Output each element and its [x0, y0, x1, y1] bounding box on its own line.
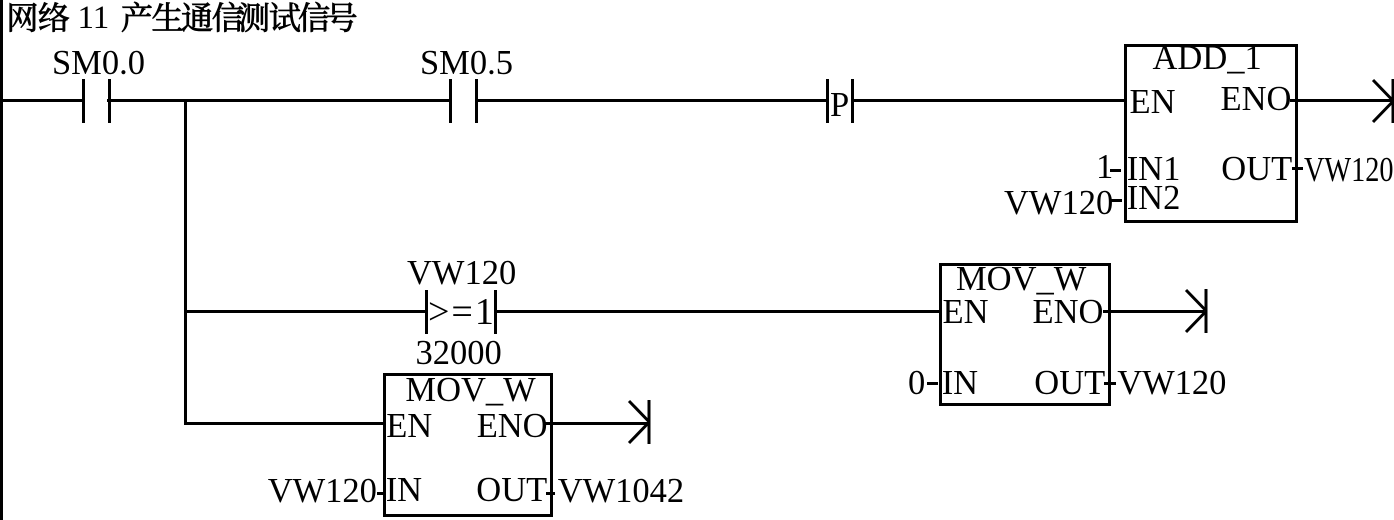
title number 11 [78, 2, 110, 35]
box ADD_1 [1124, 44, 1299, 223]
wire branch to MOV_W 2 EN [186, 422, 385, 425]
value 0 at IN rung2 [908, 366, 925, 401]
pin EN of MOV_W rung2 [943, 295, 989, 330]
pin OUT of ADD_1 [1221, 152, 1292, 187]
pin stub OUT rung3 [546, 492, 555, 495]
label SM0.0 [52, 46, 145, 81]
contact P right bar [851, 79, 854, 123]
arrow continuation rung 3 [622, 398, 652, 446]
value VW120 at OUT rung2 [1117, 366, 1226, 401]
box MOV_W rung3 [383, 373, 553, 517]
wire MOV_W 2 ENO to arrow [545, 422, 648, 425]
label >=1 inside compare [428, 293, 496, 331]
value VW1042 at OUT rung3 [558, 474, 684, 509]
arrow continuation rung 1 [1366, 77, 1394, 125]
pin stub OUT of ADD_1 [1292, 167, 1303, 170]
value 1 at IN1 [1096, 150, 1113, 185]
pin EN of ADD_1 [1130, 85, 1176, 120]
label P [830, 88, 849, 123]
contact SM0.0 left bar [82, 79, 85, 123]
label SM0.5 [420, 46, 513, 81]
wire MOV_W ENO to arrow [1103, 310, 1205, 313]
label MOV_W title rung3 [405, 373, 535, 408]
pin stub OUT rung2 [1104, 382, 1116, 385]
contact P left bar [826, 79, 829, 123]
label MOV_W title rung2 [956, 262, 1086, 297]
pin EN of MOV_W rung3 [386, 409, 432, 444]
pin stub IN1 [1110, 169, 1121, 172]
pin ENO of MOV_W rung3 [477, 409, 548, 444]
pin IN2 of ADD_1 [1127, 181, 1181, 216]
pin IN of MOV_W rung3 [386, 473, 422, 508]
pin stub IN rung2 [927, 382, 939, 385]
label VW120 above compare [407, 256, 516, 291]
value VW120 at IN rung3 [268, 474, 377, 509]
pin IN of MOV_W rung2 [942, 366, 978, 401]
label ADD_1 title [1153, 41, 1262, 76]
wire P to ADD_1 EN [852, 99, 1126, 102]
wire SM0.0 to SM0.5 [107, 99, 452, 102]
wire ADD_1 ENO to arrow [1290, 99, 1392, 102]
wire branch to compare contact [186, 310, 427, 313]
wire branch vertical at node after SM0.0 [184, 99, 187, 425]
compare contact left bar [425, 290, 428, 335]
wire SM0.5 to P [476, 99, 829, 102]
network title 网络 11 产生通信测试信号 [0, 0, 360, 38]
pin OUT of MOV_W rung2 [1034, 366, 1105, 401]
wire rail to SM0.0 [0, 99, 84, 102]
wire left power rail [0, 0, 3, 520]
pin ENO of ADD_1 [1221, 82, 1292, 117]
pin stub IN rung3 [377, 492, 385, 495]
wire compare to MOV_W EN [494, 310, 941, 313]
box MOV_W rung2 [939, 263, 1111, 406]
value VW120 at IN2 [1004, 186, 1113, 221]
arrow continuation rung 2 [1179, 287, 1209, 335]
compare contact right bar [494, 290, 497, 335]
pin IN1 of ADD_1 [1127, 152, 1181, 187]
contact SM0.5 left bar [449, 79, 452, 123]
label 32000 below compare [416, 336, 502, 371]
value VW120 at ADD_1 OUT [1304, 153, 1394, 188]
pin OUT of MOV_W rung3 [476, 473, 547, 508]
pin ENO of MOV_W rung2 [1033, 295, 1104, 330]
contact SM0.0 right bar [108, 79, 111, 123]
contact SM0.5 right bar [475, 79, 478, 123]
pin stub IN2 [1111, 199, 1123, 202]
